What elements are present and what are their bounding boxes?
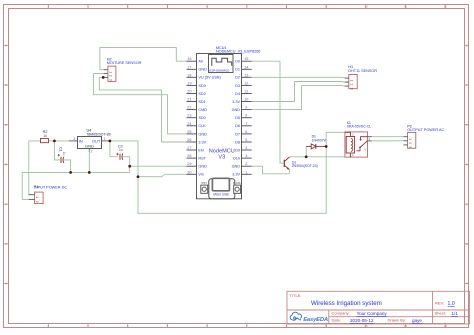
MCU1 left pins 16-30	[187, 61, 197, 174]
svg-text:1k: 1k	[43, 134, 47, 138]
svg-text:1: 1	[408, 138, 412, 140]
wire +5V to relay coil top	[326, 132, 345, 146]
svg-text:VU (5V USB): VU (5V USB)	[198, 76, 221, 80]
svg-text:SD3: SD3	[198, 84, 205, 88]
svg-text:EasyEDA: EasyEDA	[303, 317, 328, 323]
svg-text:TITLE:: TITLE:	[290, 293, 302, 298]
svg-text:12: 12	[444, 324, 448, 328]
svg-text:GND: GND	[198, 132, 207, 136]
svg-text:3.3V: 3.3V	[232, 173, 240, 177]
svg-text:RST: RST	[202, 181, 208, 185]
svg-text:gaye: gaye	[412, 318, 422, 323]
svg-text:F: F	[5, 202, 7, 206]
wire +5V bottom rail	[138, 146, 326, 213]
svg-text:D10: D10	[233, 157, 240, 161]
svg-text:B: B	[466, 44, 468, 48]
svg-text:25: 25	[187, 130, 191, 134]
svg-text:1u: 1u	[62, 152, 66, 156]
svg-text:D2: D2	[235, 76, 240, 80]
svg-text:23: 23	[187, 114, 191, 118]
svg-text:17: 17	[187, 65, 191, 69]
svg-text:MOITURE SENSOR: MOITURE SENSOR	[107, 61, 142, 65]
svg-text:IN: IN	[79, 139, 83, 144]
MCU1 right pins 15-1	[242, 61, 252, 174]
svg-text:NODEMCU_V3_ESP8266: NODEMCU_V3_ESP8266	[216, 50, 261, 54]
svg-text:SD2: SD2	[198, 92, 205, 96]
svg-text:26: 26	[187, 138, 191, 142]
wire R2 to U4 IN	[49, 140, 69, 142]
svg-text:GND: GND	[232, 108, 241, 112]
svg-text:F: F	[466, 202, 468, 206]
wire relay pin4 to P2 pin1	[372, 136, 404, 138]
svg-text:Wireless Irrigation system: Wireless Irrigation system	[311, 300, 382, 307]
ESP-8266MOD sub module symbol	[209, 55, 234, 73]
wire U4 GND to rail	[88, 150, 90, 172]
svg-text:1.0: 1.0	[448, 301, 455, 307]
svg-text:10: 10	[364, 5, 368, 9]
node junction Vin/+5V rail	[137, 175, 140, 178]
svg-text:DHT11 SENSOR: DHT11 SENSOR	[348, 69, 377, 73]
MCU1 right pin numbers	[244, 57, 248, 174]
wire +5V to NodeMCU Vin pin30	[138, 174, 187, 176]
svg-text:13: 13	[244, 73, 248, 77]
title block	[287, 291, 470, 324]
svg-text:Your Company: Your Company	[357, 311, 388, 316]
svg-text:2: 2	[35, 201, 39, 203]
svg-text:Date:: Date:	[332, 318, 342, 323]
wire D0 pin15 to Q1 base	[252, 61, 285, 163]
svg-text:H: H	[466, 282, 468, 286]
svg-text:10: 10	[364, 324, 368, 328]
node junction H2 pin3	[102, 76, 105, 79]
svg-text:Company:: Company:	[332, 311, 350, 316]
wire D1 anode branch	[305, 146, 307, 156]
node junction R2/C1/U4	[53, 140, 56, 143]
svg-text:2: 2	[408, 142, 412, 144]
svg-text:H: H	[5, 282, 7, 286]
wire GND pin2 to Q1 emitter	[252, 166, 290, 174]
svg-text:11: 11	[244, 90, 248, 94]
svg-text:1N4007W: 1N4007W	[312, 138, 328, 142]
wire D2 pin13 to DHT11 pin1	[252, 76, 349, 79]
MCU1 right pin names	[232, 60, 241, 177]
svg-text:Drawn By:: Drawn By:	[388, 318, 406, 323]
wire relay pin3 to P2 pin2	[372, 140, 404, 142]
svg-text:78M05/SOT-89: 78M05/SOT-89	[86, 132, 110, 136]
svg-text:1/1: 1/1	[452, 311, 459, 316]
svg-text:9: 9	[245, 106, 247, 110]
svg-text:1: 1	[35, 196, 39, 198]
svg-text:RST: RST	[198, 157, 206, 161]
wire C1 to gnd rail	[64, 160, 71, 173]
svg-text:SD1: SD1	[198, 100, 205, 104]
wire H2 pin2 to GND pin25	[93, 73, 186, 133]
svg-text:D9: D9	[235, 148, 240, 152]
svg-text:Micro USB: Micro USB	[213, 192, 228, 196]
wire C2 to gnd jog	[123, 157, 130, 167]
svg-text:29: 29	[187, 162, 191, 166]
diode D1 1N4007W	[306, 135, 327, 149]
relay K1 SRA-05VDC-CL	[345, 121, 372, 157]
svg-text:A0: A0	[198, 60, 203, 64]
svg-text:2: 2	[245, 162, 247, 166]
svg-text:2020-05-12: 2020-05-12	[350, 318, 374, 323]
svg-text:C1: C1	[59, 147, 63, 152]
node junction C2/gnd rail/pin29	[128, 165, 131, 168]
svg-text:D3: D3	[235, 84, 240, 88]
transistor Q1 2N3904	[284, 157, 317, 170]
wire gnd to NodeMCU pin29	[130, 165, 187, 167]
svg-text:D1: D1	[235, 68, 240, 72]
svg-text:14: 14	[244, 65, 248, 69]
svg-text:1: 1	[108, 71, 112, 73]
svg-text:5: 5	[245, 138, 247, 142]
node junction collector/D1	[305, 156, 308, 159]
wire Q1 emitter drop	[288, 170, 290, 174]
svg-text:19: 19	[187, 81, 191, 85]
svg-text:D7: D7	[235, 132, 240, 136]
op-amp U1 MCU1 NodeMCU module body	[197, 46, 261, 199]
wire C2 top branch	[110, 141, 118, 157]
wire H2 pin1 to A0	[100, 48, 187, 70]
svg-text:6: 6	[245, 130, 247, 134]
capacitor C2	[116, 144, 123, 159]
FLASH button	[233, 181, 242, 193]
svg-text:REV:: REV:	[435, 300, 444, 305]
svg-text:EN: EN	[198, 148, 204, 152]
svg-text:GND: GND	[198, 165, 207, 169]
svg-text:30: 30	[187, 170, 191, 174]
svg-text:E: E	[5, 163, 7, 167]
svg-text:15: 15	[244, 57, 248, 61]
svg-text:ESP-8266MOD: ESP-8266MOD	[209, 69, 229, 73]
svg-text:E: E	[466, 163, 468, 167]
svg-text:7: 7	[245, 122, 247, 126]
resistor R2	[41, 130, 49, 143]
svg-text:Vin: Vin	[198, 173, 203, 177]
connector H1 DHT11 SENSOR	[345, 65, 378, 90]
capacitor C1	[58, 147, 67, 163]
svg-text:1u: 1u	[119, 148, 123, 152]
wire Q1 collector to relay coil	[289, 153, 351, 157]
svg-text:CMD: CMD	[198, 108, 207, 112]
svg-text:D5: D5	[235, 116, 240, 120]
svg-text:3: 3	[408, 146, 412, 148]
svg-text:FLASH: FLASH	[233, 181, 242, 185]
svg-text:2N3904(SOT-23): 2N3904(SOT-23)	[292, 164, 318, 168]
svg-text:11: 11	[404, 5, 407, 9]
svg-text:12: 12	[444, 5, 448, 9]
svg-text:22: 22	[187, 106, 191, 110]
svg-text:21: 21	[187, 98, 191, 102]
svg-text:2: 2	[108, 75, 112, 77]
svg-text:SRA-05VDC-CL: SRA-05VDC-CL	[347, 125, 372, 129]
svg-text:OUTPUT POWER AC: OUTPUT POWER AC	[407, 128, 444, 132]
svg-text:B: B	[5, 44, 7, 48]
RST button	[201, 181, 208, 193]
connector H2 MOITURE SENSOR	[104, 58, 142, 82]
svg-text:18: 18	[187, 73, 191, 77]
svg-text:3.3V: 3.3V	[232, 100, 240, 104]
node junction U4 OUT/C2	[109, 140, 112, 143]
svg-text:28: 28	[187, 154, 191, 158]
svg-text:16: 16	[187, 57, 191, 61]
connector P2 OUTPUT POWER AC	[403, 124, 444, 148]
svg-text:GND: GND	[198, 68, 207, 72]
svg-text:20: 20	[187, 90, 191, 94]
MCU1 left pin names	[198, 60, 221, 177]
svg-text:3.3V: 3.3V	[198, 140, 206, 144]
wire H2 pin3 to 3.3V pin26	[99, 77, 186, 142]
svg-text:1: 1	[104, 137, 106, 141]
svg-text:3: 3	[245, 154, 247, 158]
svg-text:GND: GND	[85, 144, 94, 149]
gnd rail left section	[22, 166, 130, 199]
svg-text:D8: D8	[235, 140, 240, 144]
svg-text:27: 27	[187, 146, 191, 150]
svg-text:24: 24	[187, 122, 191, 126]
svg-text:INPUT POWER DC: INPUT POWER DC	[34, 185, 68, 189]
svg-text:12: 12	[244, 81, 248, 85]
MCU1 left pin numbers	[187, 57, 191, 174]
wire OUT rail to Vin corner	[110, 141, 138, 177]
svg-text:V3: V3	[218, 154, 225, 160]
svg-text:3: 3	[108, 79, 112, 81]
svg-text:D6: D6	[235, 124, 240, 128]
svg-text:1: 1	[245, 170, 247, 174]
svg-text:SD0: SD0	[198, 116, 205, 120]
svg-text:D4: D4	[235, 92, 240, 96]
regulator U4	[69, 128, 111, 153]
wire P1 pin1 to R2	[29, 141, 41, 195]
svg-text:3: 3	[350, 88, 354, 90]
wire 3.3V pin10 to DHT11 pin2	[252, 82, 349, 102]
node junction D1 cathode/+5V	[325, 145, 328, 148]
connector P1 INPUT POWER DC	[29, 185, 68, 203]
svg-text:4: 4	[245, 146, 247, 150]
node junction C1/rail	[69, 171, 72, 174]
svg-text:11: 11	[404, 324, 407, 328]
svg-text:2: 2	[350, 84, 354, 86]
Micro USB connector symbol	[209, 178, 235, 199]
node junction U4 gnd/rail	[88, 171, 91, 174]
wire GND pin9 to DHT11 pin3	[252, 86, 349, 110]
svg-text:Sheet:: Sheet:	[435, 311, 447, 316]
svg-text:8: 8	[245, 114, 247, 118]
svg-text:3: 3	[73, 137, 75, 141]
svg-text:D0: D0	[235, 60, 240, 64]
svg-text:1: 1	[350, 80, 354, 82]
svg-text:10: 10	[244, 98, 248, 102]
wire C1 top branch	[54, 141, 60, 160]
svg-text:GND: GND	[232, 165, 241, 169]
junction dots top layer	[53, 76, 327, 178]
svg-text:CLK: CLK	[198, 124, 206, 128]
svg-text:2: 2	[91, 150, 93, 154]
